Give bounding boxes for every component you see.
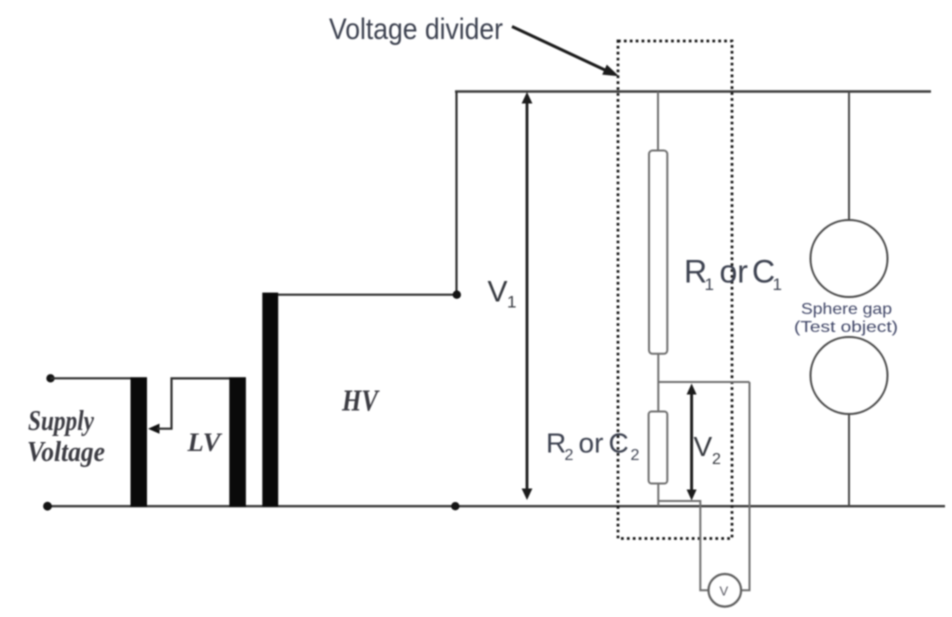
dimension arrow V1	[526, 99, 529, 492]
svg-text:2: 2	[631, 447, 640, 464]
voltage divider dashed enclosure	[618, 41, 732, 539]
svg-text:Supply: Supply	[28, 405, 94, 437]
svg-text:2: 2	[712, 451, 721, 468]
transformer winding HV bar	[262, 293, 278, 507]
wire R2 bottom	[657, 484, 659, 507]
sphere electrode top	[811, 220, 888, 297]
variac tap arrow	[148, 424, 160, 434]
voltmeter V	[709, 574, 742, 607]
svg-text:HV: HV	[341, 383, 380, 418]
node bottom bus junction	[451, 502, 459, 510]
svg-text:1: 1	[705, 275, 714, 294]
svg-text:Sphere gap: Sphere gap	[801, 301, 892, 318]
svg-text:C: C	[609, 428, 629, 459]
node supply bottom terminal	[43, 502, 52, 511]
wire R1 to R2	[657, 354, 659, 412]
svg-text:1: 1	[507, 293, 516, 312]
svg-text:or: or	[720, 254, 749, 290]
svg-text:1: 1	[773, 275, 782, 294]
svg-text:V: V	[720, 584, 729, 599]
wire R2 bottom to voltmeter left	[658, 501, 709, 590]
sphere electrode bottom	[811, 337, 888, 414]
dimension arrow V2	[690, 390, 693, 493]
svg-text:or: or	[579, 428, 604, 459]
wire divider tap to voltmeter right	[741, 382, 749, 590]
svg-text:R: R	[546, 428, 566, 459]
wire sphere gap top	[848, 92, 850, 222]
wire top HV bus	[455, 90, 931, 92]
svg-text:2: 2	[565, 447, 574, 464]
wire V2 tap horizontal	[658, 381, 749, 383]
wire supply top	[51, 377, 132, 379]
resistor R2	[649, 412, 668, 484]
transformer winding variac bar	[131, 377, 148, 507]
svg-text:(Test object): (Test object)	[794, 319, 898, 336]
wire HV output horizontal	[278, 294, 457, 296]
svg-text:V: V	[488, 276, 508, 309]
svg-text:Voltage divider: Voltage divider	[329, 13, 503, 46]
transformer winding LV bar	[229, 377, 246, 507]
node HV output junction	[453, 291, 461, 299]
wire divider top	[657, 92, 659, 153]
resistor R1	[649, 151, 667, 354]
wire HV output vertical riser	[455, 92, 457, 295]
node supply top terminal	[46, 374, 54, 382]
wire bottom return bus	[48, 505, 945, 507]
annotation arrow to voltage divider	[512, 27, 606, 71]
svg-text:Voltage: Voltage	[27, 436, 105, 468]
wire variac tap to LV winding	[157, 378, 230, 428]
svg-text:V: V	[694, 431, 713, 462]
wire sphere gap bottom	[848, 414, 850, 507]
svg-text:LV: LV	[186, 428, 223, 457]
